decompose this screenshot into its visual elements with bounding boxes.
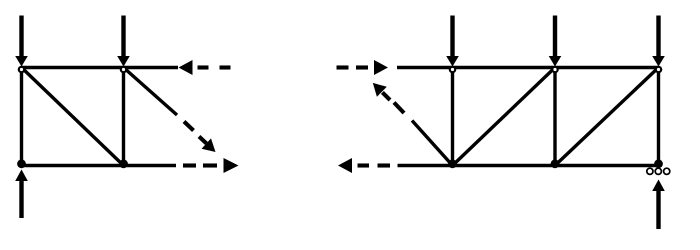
right truss: top-left pin node: [450, 67, 455, 72]
right truss: bottom-left node: [448, 159, 457, 168]
right truss: roller circle 1: [647, 168, 653, 174]
right truss: top chord force arrowhead (points right): [374, 60, 388, 75]
left truss: bottom chord force dash 1: [183, 163, 196, 167]
right truss: roller circle 3: [664, 168, 670, 174]
left truss: top-middle pin node: [121, 67, 126, 72]
right truss: cut diagonal solid part: [412, 121, 453, 166]
left truss: load arrow P1 shaft: [19, 16, 23, 59]
left truss: top chord force dash 1: [198, 65, 209, 69]
right truss: load arrow P4 head: [549, 56, 562, 67]
right truss: bottom chord: [398, 164, 659, 167]
left truss: load arrow P2 shaft: [121, 16, 125, 59]
right truss: load arrow P3 shaft: [450, 16, 454, 59]
right truss: bottom chord force dash 1: [358, 163, 370, 167]
left truss: reaction arrow head: [15, 170, 28, 182]
right truss: right vertical member: [657, 68, 660, 166]
left truss: top-left pin node: [19, 67, 24, 72]
left truss: top chord: [22, 66, 179, 69]
left truss: middle vertical member: [122, 68, 125, 166]
right truss: top chord: [397, 66, 659, 69]
left truss: top chord force dash 2: [220, 65, 231, 69]
left truss: cut diagonal dash 2 (merges into head): [199, 137, 207, 144]
right truss: diagonal member 2: [555, 68, 659, 166]
right truss: top-middle pin node: [552, 67, 557, 72]
right truss: roller circle 2: [655, 168, 661, 174]
left truss: cut diagonal solid part: [124, 68, 178, 116]
left truss: reaction arrow shaft: [19, 181, 23, 218]
right truss: reaction arrow shaft: [656, 191, 660, 229]
right truss: middle vertical member: [553, 68, 556, 166]
right truss: left vertical member: [451, 68, 454, 166]
right truss: top-right pin node: [656, 67, 661, 72]
right truss: bottom-middle node: [551, 159, 560, 168]
left truss: bottom chord force dash 2: [203, 163, 217, 167]
right truss: cut diagonal head stub: [382, 92, 390, 100]
left truss: bottom chord: [22, 164, 177, 167]
right truss: diagonal member 1: [453, 68, 556, 166]
right truss: load arrow P5 shaft: [656, 16, 660, 59]
left truss: load arrow P1 head: [15, 56, 28, 67]
right truss: top chord force dash 1: [337, 65, 349, 69]
left truss: bottom-middle node: [119, 159, 128, 168]
left truss: bottom-left node: [17, 159, 26, 168]
left truss: left vertical member: [20, 68, 23, 166]
right truss: cut diagonal arrowhead (points up-left): [373, 83, 387, 97]
left truss: cut diagonal dash 1: [184, 122, 194, 131]
right truss: load arrow P3 head: [446, 56, 459, 67]
right truss: load arrow P4 shaft: [553, 16, 557, 59]
right truss: reaction arrow head: [652, 180, 665, 192]
right truss: cut diagonal dash: [394, 103, 404, 114]
left truss: load arrow P2 head: [117, 56, 130, 67]
left truss: top chord force arrowhead (points left): [179, 60, 193, 75]
left truss: cut diagonal arrowhead (points down-right): [202, 138, 216, 152]
left truss: diagonal member: [22, 68, 124, 166]
right truss: load arrow P5 head: [652, 56, 665, 67]
right truss: top chord force dash 2: [356, 65, 368, 69]
right truss: bottom chord force dash 2: [378, 163, 391, 167]
left truss: bottom chord force arrowhead (points right): [224, 158, 239, 173]
right truss: bottom-right node: [654, 159, 663, 168]
right truss: bottom chord force arrowhead (points left): [338, 158, 352, 173]
